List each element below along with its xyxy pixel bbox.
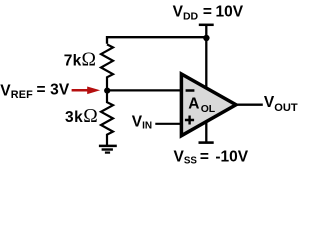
svg-text:VSS = -10V: VSS = -10V [174,148,249,166]
svg-text:VREF = 3V: VREF = 3V [0,82,70,101]
svg-text:VOUT: VOUT [264,94,298,114]
svg-text:7kΩ: 7kΩ [64,50,97,71]
svg-text:VDD = 10V: VDD = 10V [173,3,244,22]
svg-text:3kΩ: 3kΩ [65,106,98,127]
svg-text:VIN: VIN [132,113,152,131]
